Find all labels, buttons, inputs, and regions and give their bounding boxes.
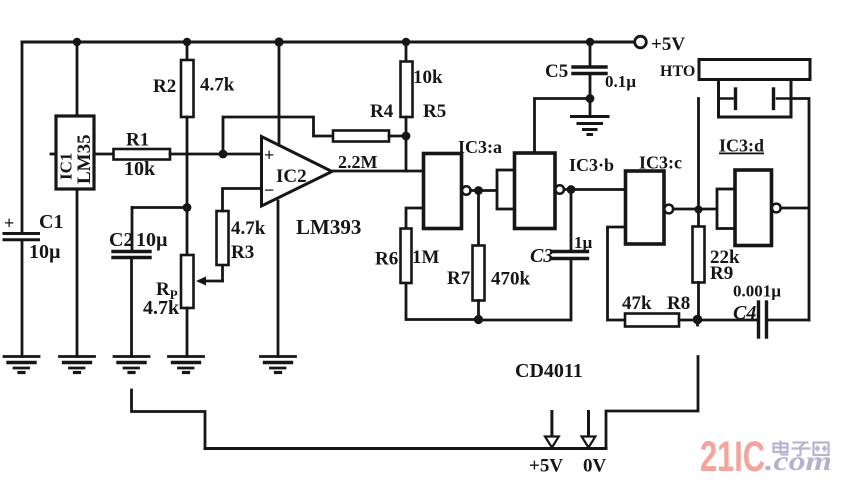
wire C3 top lead <box>570 190 573 251</box>
logic gate IC3:a body <box>424 154 462 229</box>
wire stub below R8 junction <box>696 320 699 326</box>
svg-text:4.7k: 4.7k <box>231 218 266 239</box>
wire IC1 output to R1 <box>94 153 114 156</box>
wire R5 top lead <box>405 42 408 62</box>
wire C2 bottom lead <box>130 259 133 357</box>
ground under IC2 <box>261 357 296 373</box>
svg-text:21IC: 21IC <box>700 433 765 481</box>
svg-text:10µ: 10µ <box>29 241 61 263</box>
node junction R7 bottom <box>474 315 483 324</box>
svg-text:10µ: 10µ <box>136 229 168 251</box>
svg-text:IC1: IC1 <box>57 153 76 180</box>
ground under C1 <box>4 357 39 373</box>
buzzer HTO top plate <box>699 60 810 80</box>
svg-text:IC2: IC2 <box>276 166 307 187</box>
svg-text:R5: R5 <box>423 101 446 122</box>
capacitor C5 <box>573 65 606 68</box>
wire R2 top lead <box>186 42 189 60</box>
svg-text:LM393: LM393 <box>296 215 361 239</box>
wire C2 horizontal <box>132 206 187 209</box>
svg-text:R8: R8 <box>667 293 690 314</box>
wire C5 bottom lead <box>589 74 592 116</box>
resistor R8 <box>625 314 679 327</box>
svg-text:R6: R6 <box>375 249 398 270</box>
wire C1 top lead (left edge) <box>21 42 24 232</box>
ground under C2 <box>114 357 149 373</box>
resistor R4 <box>333 131 389 142</box>
node top rail junction at IC1 <box>73 38 81 46</box>
wire Rp bottom lead <box>186 308 189 357</box>
wire IC3:c input2 to R8 <box>608 227 626 320</box>
resistor R3 <box>217 211 229 265</box>
wire bottom to C4 <box>698 319 757 322</box>
wire R5 bottom to output line <box>405 117 408 171</box>
svg-text:C2: C2 <box>109 229 133 251</box>
svg-text:+: + <box>264 145 274 165</box>
logic gate IC3:c body <box>626 171 665 244</box>
wire IC2 ground lead <box>277 201 280 357</box>
svg-text:C3: C3 <box>530 245 553 267</box>
svg-text:C5: C5 <box>545 61 568 82</box>
resistor R7 <box>477 191 480 246</box>
svg-text:−: − <box>264 180 274 200</box>
svg-text:CD4011: CD4011 <box>515 360 583 382</box>
node R4/R5 junction <box>402 132 411 141</box>
wire IC3:d output to right rail <box>781 207 809 210</box>
svg-text:R1: R1 <box>126 130 149 151</box>
logic gate IC3:d input bracket <box>717 189 735 229</box>
wire +5V top rail <box>22 41 635 44</box>
node IC3:b output bubble <box>555 185 564 194</box>
resistor R1 <box>114 149 171 160</box>
node junction R8/R9/C4 <box>693 315 703 325</box>
node junction C5 bottom <box>586 94 595 103</box>
svg-text:0.1µ: 0.1µ <box>605 72 636 91</box>
wire IC3:b output to IC3:c <box>564 188 626 191</box>
svg-text:1M: 1M <box>412 247 440 268</box>
svg-text:R9: R9 <box>710 263 733 284</box>
node IC3:d output bubble <box>772 204 781 213</box>
resistor R6 <box>401 229 412 284</box>
logic gate IC3:b body <box>515 153 556 229</box>
terminal +5V open circle <box>635 36 647 48</box>
svg-text:.com: .com <box>765 446 832 476</box>
svg-text:IC3:c: IC3:c <box>639 153 682 173</box>
node top rail junction at IC2 V+ <box>274 37 283 46</box>
wire buzzer left terminal <box>697 99 700 210</box>
svg-text:IC3·b: IC3·b <box>569 155 614 175</box>
wire R3 top to IC2 minus input <box>223 189 262 212</box>
node junction C2 tap <box>183 203 192 212</box>
svg-text:C4: C4 <box>733 302 756 324</box>
ground under Rp <box>169 357 204 373</box>
svg-text:4.7k: 4.7k <box>143 297 180 319</box>
resistor Rp potentiometer body <box>181 255 194 308</box>
svg-text:4.7k: 4.7k <box>200 75 235 96</box>
ground under C5 <box>572 117 609 135</box>
svg-text:R2: R2 <box>153 76 176 97</box>
node IC3:a output bubble <box>462 186 471 195</box>
node top rail junction at R2 <box>183 38 191 46</box>
svg-text:IC3:d: IC3:d <box>719 136 764 156</box>
capacitor C4 <box>757 302 760 337</box>
watermark dian zi wang glyphs <box>774 441 829 456</box>
svg-text:0V: 0V <box>583 456 607 477</box>
svg-text:+5V: +5V <box>529 456 563 477</box>
node IC3:c output bubble <box>664 205 673 214</box>
wire R1 to IC2 plus input <box>170 153 262 156</box>
wire IC3:c output <box>673 208 717 211</box>
svg-text:470k: 470k <box>491 269 531 290</box>
svg-text:0.001µ: 0.001µ <box>733 282 781 301</box>
wire +5V arrow <box>550 412 553 437</box>
wire IC1 left stub <box>51 153 56 156</box>
wire C3 bottom lead <box>479 259 572 320</box>
svg-text:+: + <box>4 213 14 233</box>
buzzer right electrode <box>777 97 791 100</box>
buzzer HTO housing <box>719 80 792 118</box>
node junction C3 top <box>567 185 576 194</box>
wire C1 bottom lead <box>21 241 24 357</box>
watermark 21IC <box>700 433 832 481</box>
wire feedback loop <box>223 117 333 154</box>
wire Rp wiper arrow <box>200 280 223 283</box>
svg-text:+5V: +5V <box>651 34 685 55</box>
resistor R9 <box>697 209 700 227</box>
wire IC2 output <box>332 170 424 173</box>
capacitor C3 <box>554 250 588 253</box>
node junction R9 top <box>695 206 703 214</box>
wire R8 right lead <box>679 319 698 322</box>
wire bottom bus <box>205 447 606 450</box>
wire ground hook to bottom bus <box>132 390 206 449</box>
buzzer left electrode <box>719 97 733 100</box>
wire 0V arrow <box>587 412 590 437</box>
op-amp U1 IC1 LM35 body <box>56 116 94 189</box>
svg-text:2.2M: 2.2M <box>338 152 378 172</box>
svg-text:10k: 10k <box>124 158 156 180</box>
svg-text:R7: R7 <box>447 268 471 289</box>
capacitor C1 <box>4 232 39 235</box>
resistor R2 <box>181 60 194 117</box>
wire R4 to R5 node <box>389 135 406 138</box>
wire buzzer right terminal <box>791 99 809 321</box>
wire R3 bottom lead from wiper <box>221 265 224 281</box>
logic gate IC3:b input bracket <box>497 170 515 209</box>
wire C2 top lead <box>131 208 134 251</box>
node junction R7 top <box>474 186 483 195</box>
wire IC3:a input2 <box>406 208 424 229</box>
svg-text:C1: C1 <box>39 211 63 233</box>
node top rail junction at R5 <box>402 38 410 46</box>
wire IC3:a output <box>471 189 497 192</box>
wire R2 bottom down to Rp <box>186 117 189 255</box>
op-amp U2 IC2 triangle <box>262 137 333 207</box>
svg-text:IC3:a: IC3:a <box>458 137 502 157</box>
wire C4 right lead <box>769 319 810 322</box>
node top rail junction at C5 <box>586 38 594 46</box>
svg-text:10k: 10k <box>413 67 443 88</box>
wire IC1 top lead <box>76 42 79 116</box>
wire IC1 bottom lead <box>76 189 79 357</box>
wire R6 bottom lead <box>406 283 479 320</box>
wire IC2 V+ supply <box>278 42 281 144</box>
svg-text:HTO: HTO <box>660 63 695 80</box>
ground under IC1 <box>60 357 95 373</box>
capacitor C2 <box>113 250 150 253</box>
logic gate IC3:d body <box>735 170 772 246</box>
svg-text:47k: 47k <box>622 293 652 314</box>
wire IC3:b top pin <box>535 99 591 154</box>
svg-text:LM35: LM35 <box>74 134 95 184</box>
wire bus riser right <box>606 357 698 449</box>
svg-text:1µ: 1µ <box>574 233 593 252</box>
node feedback tap junction <box>219 150 228 159</box>
svg-text:R4: R4 <box>370 101 394 122</box>
svg-text:R3: R3 <box>231 242 254 263</box>
resistor R5 <box>401 62 413 118</box>
wire C5 top lead <box>589 42 592 66</box>
